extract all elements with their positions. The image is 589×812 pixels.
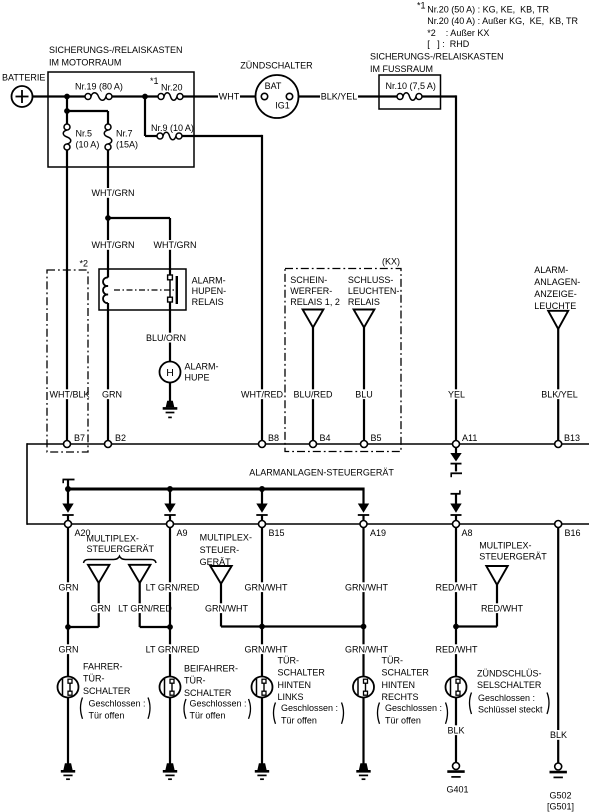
svg-text:BAT: BAT: [265, 81, 282, 91]
ground right rear door switch: [356, 763, 370, 779]
svg-text:SELSCHALTER: SELSCHALTER: [477, 680, 542, 690]
svg-text:WERFER-: WERFER-: [290, 286, 332, 296]
wire indicator light to B13 BLK/YEL: [540, 329, 580, 441]
svg-text:Nr.9 (10 A): Nr.9 (10 A): [151, 123, 194, 133]
svg-text:GRN/WHT: GRN/WHT: [245, 583, 288, 593]
svg-text:LEUCHTEN-: LEUCHTEN-: [348, 286, 400, 296]
svg-text:GRN/WHT: GRN/WHT: [205, 604, 248, 614]
wire A19 to right rear door switch GRN/WHT: [344, 528, 389, 677]
pin B4: [310, 433, 331, 448]
multiplex triangle 3 GRN/WHT: [210, 566, 231, 584]
ground driver door switch: [61, 763, 75, 779]
svg-text:WHT/GRN: WHT/GRN: [92, 240, 135, 250]
svg-text:LINKS: LINKS: [278, 692, 304, 702]
wire A20 to driver door switch GRN: [58, 528, 80, 677]
wire fuse19 to fuse20: [112, 95, 158, 97]
svg-text:WHT/GRN: WHT/GRN: [154, 240, 197, 250]
svg-text:SCHEIN-: SCHEIN-: [290, 275, 327, 285]
headlight relay label: [290, 275, 340, 307]
svg-text:A19: A19: [370, 528, 386, 538]
svg-text:BLU: BLU: [355, 390, 373, 400]
svg-text:WHT/RED: WHT/RED: [241, 390, 283, 400]
svg-text:LT GRN/RED: LT GRN/RED: [146, 645, 200, 655]
multiplex triangle 4 RED/WHT: [486, 566, 507, 585]
multiplex triangle 2 LT GRN/RED: [129, 565, 150, 583]
svg-text:GRN: GRN: [59, 583, 79, 593]
svg-text:B15: B15: [269, 528, 285, 538]
wire relay contact to horn BLU/ORN: [145, 310, 187, 362]
svg-text:STEUERGERÄT: STEUERGERÄT: [87, 544, 155, 554]
diode to A19: [358, 488, 369, 521]
fuse Nr.9 (10A): [145, 97, 182, 140]
svg-text:IG1: IG1: [275, 100, 290, 110]
svg-text:*1: *1: [150, 76, 159, 86]
svg-text:ALARM-: ALARM-: [192, 275, 226, 285]
alarm horn label: [185, 361, 219, 382]
node relay feed junction: [105, 215, 170, 221]
ignition switch: [256, 75, 299, 118]
svg-text:RECHTS: RECHTS: [382, 692, 419, 702]
wire relay coil to B2 GRN: [101, 310, 124, 441]
pin B15: [259, 521, 285, 539]
svg-text:MULTIPLEX-: MULTIPLEX-: [87, 533, 139, 543]
svg-text:Nr.5: Nr.5: [76, 129, 93, 139]
svg-text:SICHERUNGS-/RELAISKASTEN: SICHERUNGS-/RELAISKASTEN: [49, 45, 183, 55]
svg-text:B13: B13: [564, 433, 580, 443]
pin A11: [453, 433, 478, 448]
svg-text:GRN: GRN: [91, 604, 111, 614]
fuse Nr.5 label: [76, 129, 100, 150]
svg-text:GRN: GRN: [59, 645, 79, 655]
pin A9: [167, 521, 188, 539]
svg-text:HINTEN: HINTEN: [278, 680, 312, 690]
svg-text:Nr.19 (80 A): Nr.19 (80 A): [75, 82, 123, 92]
node A8 junction: [453, 624, 459, 630]
svg-text:[ ] : RHD: [ ] : RHD: [427, 39, 470, 49]
wire triangle1 to A20 junction GRN: [68, 583, 112, 627]
fuse/relay box footwell title: [370, 52, 504, 75]
svg-text:HINTEN: HINTEN: [382, 680, 416, 690]
svg-text:RELAIS 1, 2: RELAIS 1, 2: [290, 297, 340, 307]
svg-text:ANLAGEN-: ANLAGEN-: [534, 277, 580, 287]
fuse Nr.5 (10A): [63, 124, 71, 150]
left rear door switch label: [274, 656, 344, 726]
relay contact: [114, 269, 177, 310]
svg-text:GRN/WHT: GRN/WHT: [345, 583, 388, 593]
svg-text:A9: A9: [177, 528, 188, 538]
svg-text:B16: B16: [565, 528, 581, 538]
svg-text:BATTERIE: BATTERIE: [2, 73, 45, 83]
dashed option box KX: [285, 269, 401, 452]
svg-text:ZÜNDSCHALTER: ZÜNDSCHALTER: [240, 61, 313, 71]
svg-text:STEUERGERÄT: STEUERGERÄT: [479, 551, 547, 561]
svg-text:BLK/YEL: BLK/YEL: [321, 92, 358, 102]
fuse/relay box footwell: [379, 75, 441, 109]
svg-text:H: H: [166, 367, 174, 379]
wire triangle2 to A9 junction LT GRN/RED: [117, 583, 173, 627]
svg-text:ALARM-: ALARM-: [534, 265, 568, 275]
svg-text:Nr.10 (7,5 A): Nr.10 (7,5 A): [386, 81, 436, 91]
fuse/relay box engine compartment title: [49, 45, 183, 68]
svg-text:BLU/RED: BLU/RED: [293, 390, 333, 400]
wire headlight relay to B4 BLU/RED: [293, 328, 334, 441]
fuse Nr.7 label: [116, 129, 138, 150]
wire key switch to G401 BLK: [447, 698, 466, 763]
svg-text:Geschlossen :: Geschlossen :: [281, 703, 338, 713]
ground G401: [446, 763, 468, 795]
alarm horn relay label: [192, 275, 227, 307]
svg-text:B8: B8: [268, 433, 279, 443]
svg-text:BLK: BLK: [550, 730, 567, 740]
fuse Nr.20 label: [150, 76, 183, 93]
svg-text:TÜR-: TÜR-: [382, 656, 404, 666]
right rear door switch label: [378, 656, 448, 726]
svg-text:SCHALTER: SCHALTER: [278, 668, 326, 678]
svg-text:Tür offen: Tür offen: [190, 711, 226, 721]
multiplex triangle 1 GRN: [88, 565, 109, 583]
node bus A20: [65, 486, 71, 492]
svg-text:FAHRER-: FAHRER-: [83, 662, 123, 672]
alarm horn H: [160, 362, 181, 383]
alarm indicator light triangle: [548, 311, 568, 329]
relay box alarm horn relay: [99, 269, 186, 310]
ignition key switch: [446, 677, 467, 698]
wire to relay contact WHT/GRN: [153, 218, 198, 270]
node bus B15: [259, 486, 265, 492]
pin B5: [361, 433, 382, 448]
svg-text:BLK/YEL: BLK/YEL: [541, 390, 578, 400]
svg-text:(15A): (15A): [116, 140, 138, 150]
ground left rear door switch: [255, 763, 269, 779]
dashed option box *2: [47, 270, 88, 452]
svg-text:HUPE: HUPE: [185, 373, 210, 383]
internal bus cap stub at A20: [63, 480, 75, 490]
svg-text:LT GRN/RED: LT GRN/RED: [118, 604, 172, 614]
svg-text:Geschlossen :: Geschlossen :: [89, 699, 146, 709]
fuse/relay box engine compartment: [48, 72, 194, 167]
wire fuse7 down WHT/GRN: [91, 150, 136, 218]
wire fuse9 to B8 column WHT/RED: [182, 135, 284, 441]
wire fuse20 to ignition switch WHT: [183, 92, 255, 102]
multiplex control unit label group 1: [87, 533, 155, 554]
passenger door switch label: [184, 664, 251, 721]
pin B2: [105, 433, 127, 448]
wire B15 to left rear door switch GRN/WHT: [244, 528, 289, 677]
wire node1 down to sub-junction: [66, 97, 68, 125]
svg-text:Geschlossen :: Geschlossen :: [190, 699, 247, 709]
diode to B15: [256, 489, 267, 521]
svg-text:WHT/GRN: WHT/GRN: [92, 188, 135, 198]
node sub-junction Nr.5/Nr.7: [64, 108, 108, 124]
svg-text:Tür offen: Tür offen: [281, 715, 317, 725]
wire battery to node 1: [33, 95, 86, 97]
svg-text:*2 : Außer KX: *2 : Außer KX: [427, 28, 489, 38]
right rear door switch: [353, 677, 374, 698]
passenger door switch: [160, 677, 181, 698]
pin A19: [360, 521, 386, 539]
svg-text:Nr.20: Nr.20: [161, 83, 183, 93]
node B15 junction: [259, 624, 265, 630]
alarm indicator light label: [534, 265, 580, 311]
svg-text:GRN/WHT: GRN/WHT: [245, 645, 288, 655]
fuse Nr.10 (7.5A): [379, 93, 422, 101]
wire triangle4 to A8 junction RED/WHT: [456, 585, 524, 627]
svg-text:G401: G401: [446, 784, 468, 794]
svg-text:TÜR-: TÜR-: [278, 656, 300, 666]
svg-text:RED/WHT: RED/WHT: [436, 645, 478, 655]
ignition key switch label: [470, 669, 550, 715]
svg-text:HUPEN-: HUPEN-: [192, 286, 227, 296]
svg-text:*1: *1: [417, 1, 426, 11]
svg-text:Nr.7: Nr.7: [116, 129, 133, 139]
diode to A9: [164, 489, 175, 521]
wire fuse10 to A11 column: [422, 95, 466, 440]
headlight relay triangle: [303, 310, 324, 328]
control unit bottom pin row: [27, 523, 589, 525]
multiplex control unit label group 3: [479, 540, 547, 561]
svg-text:MULTIPLEX-: MULTIPLEX-: [200, 533, 252, 543]
svg-text:WHT/BLK: WHT/BLK: [49, 390, 89, 400]
battery: [12, 86, 33, 107]
pin B7: [64, 433, 86, 448]
svg-text:B4: B4: [320, 433, 331, 443]
internal thick bus: [68, 488, 364, 491]
svg-text:BEIFAHRER-: BEIFAHRER-: [184, 664, 238, 674]
ground horn: [163, 401, 178, 418]
svg-text:A11: A11: [462, 433, 477, 443]
svg-text:*2: *2: [80, 259, 89, 269]
svg-text:(10 A): (10 A): [76, 140, 100, 150]
svg-text:(KX): (KX): [382, 257, 400, 267]
fuse Nr.19 (80A): [85, 93, 112, 101]
taillight relay triangle: [354, 310, 375, 328]
svg-text:Nr.20 (40 A) : Außer KG, KE,: Nr.20 (40 A) : Außer KG, KE, KB, TR: [427, 16, 578, 26]
svg-text:ALARM-: ALARM-: [185, 361, 219, 371]
diode to A20: [62, 489, 73, 521]
wire ignition to footwell fusebox BLK/YEL: [299, 92, 380, 102]
pin A20: [65, 521, 91, 539]
brace over multiplex triangles: [84, 556, 157, 563]
left rear door switch: [252, 677, 273, 698]
svg-text:Tür offen: Tür offen: [89, 711, 125, 721]
svg-text:B7: B7: [74, 433, 85, 443]
svg-text:SCHLUSS-: SCHLUSS-: [348, 275, 394, 285]
pin B13: [555, 433, 580, 448]
svg-text:LT GRN/RED: LT GRN/RED: [146, 583, 200, 593]
svg-text:TÜR-: TÜR-: [184, 676, 206, 686]
fuse Nr.7 (15A): [104, 124, 112, 150]
driver door switch: [58, 677, 79, 698]
svg-text:RELAIS: RELAIS: [192, 297, 224, 307]
svg-text:A8: A8: [462, 528, 473, 538]
wire triangle3 to B15/A19 junctions GRN/WHT: [204, 584, 364, 627]
wire B16 to G502 BLK: [549, 528, 568, 764]
note *1 legend: [417, 1, 578, 50]
wire fuse5 to B7 WHT/BLK: [49, 150, 91, 441]
node A9 junction: [167, 624, 173, 630]
node junction Nr.9 tap: [142, 94, 148, 100]
control unit top pin row: [27, 443, 589, 445]
ground passenger door switch: [163, 763, 177, 779]
wire to relay coil WHT/GRN: [91, 218, 136, 270]
svg-text:GRN: GRN: [102, 390, 122, 400]
svg-text:RED/WHT: RED/WHT: [481, 604, 523, 614]
multiplex control unit label group 2: [200, 533, 252, 568]
svg-text:MULTIPLEX-: MULTIPLEX-: [479, 540, 531, 550]
pin B8: [259, 433, 280, 448]
wire A8 to key switch RED/WHT: [435, 528, 479, 677]
wire A9 to passenger door switch LT GRN/RED: [145, 528, 201, 677]
node bus A9: [167, 486, 173, 492]
svg-text:B2: B2: [115, 433, 126, 443]
fuse Nr.20: [158, 93, 183, 101]
wire right rear switch to ground: [362, 698, 364, 764]
svg-text:WHT: WHT: [219, 92, 240, 102]
svg-text:BLK: BLK: [447, 726, 464, 736]
relay coil: [103, 269, 108, 310]
svg-text:SCHALTER: SCHALTER: [382, 668, 430, 678]
svg-text:IM MOTORRAUM: IM MOTORRAUM: [49, 58, 121, 68]
diode A11 internal: [450, 448, 462, 478]
wire left rear switch to ground: [261, 698, 263, 764]
node A19 junction: [361, 624, 367, 630]
internal cap stub and diode at A8: [450, 490, 461, 520]
ground G502: [547, 763, 574, 811]
node A20 junction: [65, 624, 71, 630]
wire passenger switch to ground: [169, 698, 171, 764]
svg-text:GRN/WHT: GRN/WHT: [345, 645, 388, 655]
svg-text:[G501]: [G501]: [547, 801, 574, 811]
svg-text:ZÜNDSCHLÜS-: ZÜNDSCHLÜS-: [477, 669, 542, 679]
svg-text:G502: G502: [549, 791, 571, 801]
svg-text:Schlüssel steckt: Schlüssel steckt: [478, 705, 543, 715]
svg-text:BLU/ORN: BLU/ORN: [146, 333, 186, 343]
svg-text:ANZEIGE-: ANZEIGE-: [534, 289, 577, 299]
svg-text:TÜR-: TÜR-: [83, 674, 105, 684]
wire taillight relay to B5 BLU: [354, 328, 374, 441]
pin B16: [555, 521, 581, 539]
svg-text:ALARMANLAGEN-STEUERGERÄT: ALARMANLAGEN-STEUERGERÄT: [249, 468, 394, 478]
svg-text:Geschlossen :: Geschlossen :: [385, 703, 442, 713]
wire horn to ground: [169, 383, 171, 402]
wire driver switch to ground: [67, 698, 69, 764]
wire left edge down: [26, 443, 28, 525]
svg-text:RELAIS: RELAIS: [348, 297, 380, 307]
svg-text:YEL: YEL: [448, 390, 465, 400]
svg-text:SICHERUNGS-/RELAISKASTEN: SICHERUNGS-/RELAISKASTEN: [370, 52, 504, 62]
driver door switch label: [81, 662, 151, 721]
svg-text:SCHALTER: SCHALTER: [184, 688, 232, 698]
svg-text:Nr.20 (50 A) : KG, KE, KB, TR: Nr.20 (50 A) : KG, KE, KB, TR: [427, 5, 549, 15]
svg-text:STEUER-: STEUER-: [200, 545, 240, 555]
svg-text:SCHALTER: SCHALTER: [83, 686, 131, 696]
svg-text:Geschlossen :: Geschlossen :: [478, 693, 535, 703]
svg-text:LEUCHTE: LEUCHTE: [534, 301, 576, 311]
svg-text:IM FUSSRAUM: IM FUSSRAUM: [370, 64, 433, 74]
svg-text:Tür offen: Tür offen: [385, 715, 421, 725]
node junction battery feed: [64, 94, 70, 100]
pin A8: [453, 521, 473, 539]
svg-text:B5: B5: [371, 433, 382, 443]
svg-text:RED/WHT: RED/WHT: [436, 583, 478, 593]
taillight relay label: [348, 275, 400, 307]
